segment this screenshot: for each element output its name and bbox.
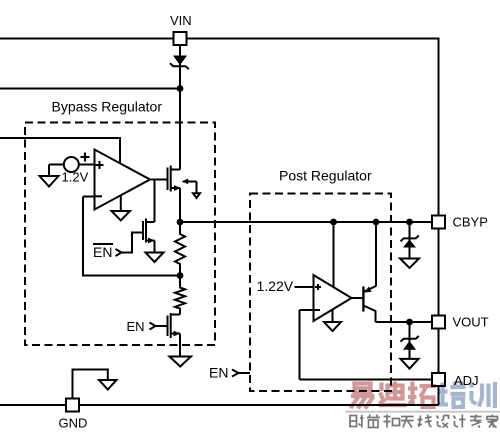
pin VOUT square [432,316,445,329]
wire M2 gate from EN-bar input [122,233,144,253]
ground (op-amp U1) [112,211,131,221]
ground (D3) [401,359,419,369]
transistor M1 (pass NMOS) [168,166,181,223]
wire post op-amp supply [333,222,335,287]
transistor Q1 (PNP pass) [363,222,376,322]
dashed box Post Regulator [250,194,391,392]
射 [350,415,364,428]
dashed box Bypass Regulator [25,123,215,346]
wire ADJ feedback horizontal [300,379,433,381]
ground (M1 bulk, small) [193,193,200,198]
node junction VOUT zener [406,319,413,326]
ground (GND branch) [99,380,117,390]
天 [401,417,414,428]
watermark logo 易迪拓培训 + 射频和天线设计专家 [345,382,500,428]
voltage source V1 1.2V [49,153,95,177]
watermark char 培 [438,382,466,408]
node junction CBYP left [177,219,184,226]
watermark char 训 [470,382,495,408]
pin CBYP square [432,216,445,229]
ground (D2) [400,259,419,269]
家 [487,415,498,428]
专 [470,415,482,428]
wire top VIN rail [0,39,439,406]
svg-text:CBYP: CBYP [453,215,488,230]
svg-text:EN: EN [209,365,228,381]
svg-text:Bypass Regulator: Bypass Regulator [52,99,163,115]
op-amp U1 (bypass error amp) [83,150,150,212]
node EN-bar input chevron [116,249,122,256]
label EN-bar (M2 gate) [93,244,113,260]
zener diode D1 (below VIN pin) [170,56,189,70]
watermark subtitle 射频和天线设计专家 [350,415,498,428]
wire GND branch with ground symbol [73,370,108,399]
node junction CBYP zener [406,219,413,226]
pin ADJ square [432,373,445,386]
wire into bypass box (supply) [0,138,120,164]
svg-text:Post Regulator: Post Regulator [279,168,372,184]
wire VOUT horizontal [376,321,433,323]
node junction Q1 emitter [373,219,380,226]
watermark char 迪 [379,382,407,406]
wire U2 output to Q1 base [350,297,363,299]
pin GND square [66,399,79,412]
ground (M3 source) [170,357,192,367]
svg-text:1.2V: 1.2V [62,170,89,185]
计 [454,415,466,428]
node EN input chevron (post) [232,370,239,377]
wire EN input to post regulator [239,372,251,374]
ground (below 1.2V source) [40,176,59,187]
node junction feedback tap [177,272,184,279]
ground (M2 source) [146,253,164,263]
wire bottom GND rail [0,404,439,406]
svg-text:VOUT: VOUT [453,315,489,330]
node junction at VIN branch [177,85,184,92]
设 [437,416,449,428]
ground (op-amp U2) [324,322,341,331]
线 [418,415,432,428]
node EN input chevron (M3) [150,323,156,330]
wire CBYP horizontal [180,221,432,223]
svg-text:EN: EN [127,319,145,334]
transistor M3 (EN pulldown NMOS) [156,313,181,357]
wire M1 bulk arrow [182,179,197,194]
op-amp U2 (post error amp) [295,275,352,380]
resistor R1 [175,222,185,276]
svg-text:GND: GND [59,416,88,431]
watermark divider rule [345,411,500,413]
zener diode D3 (VOUT to ground) [401,322,419,359]
transistor M2 (EN-bar shutdown NMOS) [143,180,155,253]
wire main VIN vertical branch [179,46,181,170]
和 [384,415,400,428]
wire feedback to U1 inverting input [83,197,180,276]
wire op-amp U1 output [150,179,168,181]
node junction post op-amp supply [330,219,337,226]
svg-text:VIN: VIN [170,13,192,28]
zener diode D2 (CBYP to ground) [401,222,419,259]
svg-text:1.22V: 1.22V [257,278,294,294]
pin VIN square [174,32,187,45]
watermark char 易 [351,384,375,409]
resistor R2 [175,276,185,315]
watermark char 拓 [408,382,436,408]
wire second horizontal to VIN node [0,88,180,90]
svg-text:EN: EN [93,244,112,260]
